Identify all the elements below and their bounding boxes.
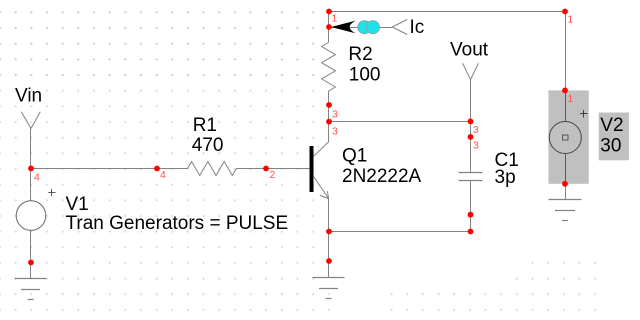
svg-text:3: 3 bbox=[473, 124, 479, 136]
resistor R1 (horizontal) bbox=[188, 162, 310, 176]
wire node1 to ammeter node bbox=[328, 11, 330, 28]
node dot R1 right bbox=[263, 166, 269, 172]
wire emitter down bbox=[328, 199, 330, 261]
svg-text:100: 100 bbox=[349, 64, 381, 85]
node dot 1 top-right bbox=[562, 9, 568, 15]
svg-text:3: 3 bbox=[473, 139, 479, 151]
ammeter Ic probe bbox=[331, 20, 407, 35]
svg-text:R1: R1 bbox=[193, 115, 217, 136]
label V2 value box bbox=[599, 113, 629, 161]
svg-text:1: 1 bbox=[332, 13, 338, 25]
capacitor C1 bbox=[459, 173, 483, 215]
node dot emitter junction bbox=[326, 229, 332, 235]
svg-text:3p: 3p bbox=[495, 167, 516, 188]
svg-text:2: 2 bbox=[270, 169, 276, 181]
node dot collector bbox=[326, 119, 332, 125]
svg-text:1: 1 bbox=[567, 93, 573, 105]
battery V2 bbox=[548, 90, 588, 184]
svg-text:R2: R2 bbox=[348, 44, 372, 65]
svg-text:Vout: Vout bbox=[450, 39, 489, 60]
ground V2 bbox=[549, 184, 582, 221]
wire Vin node to R1 bbox=[31, 168, 188, 170]
node dot 1 top-left bbox=[326, 9, 332, 15]
ground V1 bbox=[15, 263, 47, 300]
svg-text:Q1: Q1 bbox=[342, 146, 367, 167]
node dot Q1 ground bbox=[326, 258, 332, 264]
wire collector net to Vout bbox=[329, 121, 471, 123]
node dot vout junction bbox=[468, 119, 474, 125]
svg-text:V1: V1 bbox=[66, 194, 89, 215]
voltage source V1 bbox=[16, 169, 55, 263]
svg-text:3: 3 bbox=[332, 108, 338, 120]
wire emitter to C1 bottom corner bbox=[329, 231, 471, 233]
svg-text:Ic: Ic bbox=[410, 17, 425, 38]
svg-text:V2: V2 bbox=[600, 115, 623, 136]
svg-text:3: 3 bbox=[332, 126, 338, 138]
svg-text:4: 4 bbox=[160, 169, 166, 181]
svg-text:2N2222A: 2N2222A bbox=[342, 166, 422, 187]
node dot R1 left bbox=[154, 166, 160, 172]
svg-text:30: 30 bbox=[600, 136, 621, 157]
node dot C1 top bbox=[468, 134, 474, 140]
node dot Vin bbox=[28, 166, 34, 172]
node dot R2 bottom bbox=[326, 102, 332, 108]
wire V2 top drop bbox=[565, 11, 567, 91]
wire R2 bottom to collector node bbox=[328, 105, 330, 142]
svg-text:Tran Generators = PULSE: Tran Generators = PULSE bbox=[66, 213, 289, 234]
antenna terminal Vout bbox=[463, 63, 479, 121]
node dot V2 top bbox=[562, 88, 568, 94]
svg-text:470: 470 bbox=[192, 135, 224, 156]
wire corner up to C1 bbox=[470, 215, 472, 232]
node dot V2 bottom bbox=[562, 181, 568, 187]
node dot V1 ground bbox=[28, 260, 34, 266]
transistor Q1 bbox=[310, 142, 329, 199]
ground Q1 emitter bbox=[313, 261, 345, 299]
svg-text:Vin: Vin bbox=[15, 86, 42, 107]
resistor R2 (vertical) bbox=[322, 27, 336, 105]
node dot ammeter bbox=[326, 24, 332, 30]
wire top rail node1 to V2 bbox=[329, 11, 566, 13]
wire Vout node to C1 bbox=[470, 122, 472, 173]
node dot C1 bottom bbox=[468, 212, 474, 218]
svg-text:4: 4 bbox=[34, 171, 40, 183]
antenna terminal Vin bbox=[21, 112, 40, 169]
node dot emitter corner bbox=[468, 229, 474, 235]
svg-text:1: 1 bbox=[567, 14, 573, 26]
